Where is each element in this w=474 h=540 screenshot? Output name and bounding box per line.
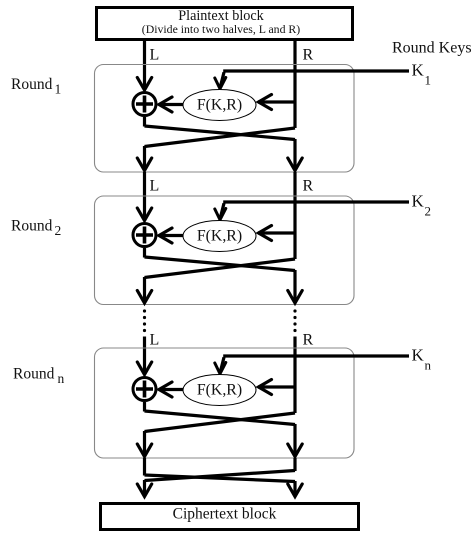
- wire R to F round 2: [258, 226, 295, 241]
- wire right output arrow round n: [288, 424, 302, 457]
- wire F to XOR round n: [159, 382, 183, 397]
- svg-text:1: 1: [55, 82, 62, 97]
- svg-text:F(K,R): F(K,R): [197, 382, 242, 399]
- svg-text:F(K,R): F(K,R): [197, 228, 242, 245]
- node L (top): [150, 47, 160, 64]
- svg-text:1: 1: [425, 73, 432, 88]
- svg-text:R: R: [303, 47, 314, 64]
- svg-text:K: K: [412, 192, 425, 211]
- node R (between round1,2): [303, 178, 314, 195]
- wire final swap left vertical: [143, 458, 146, 476]
- svg-text:n: n: [425, 358, 432, 373]
- svg-text:K: K: [412, 346, 425, 365]
- wire swap diagonal right-to-left round 2: [145, 259, 296, 278]
- wire swap diagonal left-to-right round n: [145, 411, 296, 425]
- svg-text:F(K,R): F(K,R): [197, 97, 242, 114]
- wire L round1 to round2 XOR: [137, 172, 151, 221]
- key K2 label: [412, 192, 432, 219]
- wire K1: key into F: [215, 71, 409, 89]
- wire L: plaintext to round1 XOR: [137, 41, 151, 90]
- svg-text:2: 2: [425, 204, 432, 219]
- xor round n: [133, 378, 156, 401]
- wire L into round n XOR: [137, 337, 151, 375]
- wire R into round n: [293, 337, 296, 414]
- round 1 box: [95, 65, 355, 173]
- label Round 2: [11, 218, 61, 239]
- op F(K,R) round n: [183, 375, 256, 406]
- wire final swap right-to-left diagonal: [145, 471, 296, 481]
- node L (between round1,2): [150, 178, 160, 195]
- wire R: plaintext down right column round1: [293, 41, 296, 128]
- wire swap diagonal left-to-right round 1: [145, 126, 296, 140]
- svg-text:n: n: [58, 371, 65, 386]
- wire Kn: key into F: [215, 356, 409, 374]
- op F(K,R) round 1: [183, 90, 256, 121]
- wire right output arrow round 2: [288, 270, 302, 303]
- plaintext box: [97, 8, 353, 40]
- wire F to XOR round 1: [159, 97, 183, 112]
- svg-text:R: R: [303, 332, 314, 349]
- key Kn label: [412, 346, 432, 373]
- wire R to F round 1: [258, 95, 295, 110]
- node R (above round n): [303, 332, 314, 349]
- round 2 box: [95, 196, 355, 305]
- wire swap diagonal right-to-left round 1: [145, 128, 296, 147]
- ciphertext box: [101, 504, 359, 530]
- svg-text:(Divide into two halves, L and: (Divide into two halves, L and R): [142, 22, 301, 36]
- wire left output arrow round 2: [137, 277, 151, 303]
- wire XOR output down round 1: [143, 117, 146, 127]
- svg-text:Round: Round: [13, 366, 55, 383]
- svg-text:Round Keys: Round Keys: [392, 40, 472, 57]
- wire left output arrow round n: [137, 431, 151, 457]
- wire R round1 to round2: [293, 172, 296, 259]
- wire swap diagonal left-to-right round 2: [145, 257, 296, 271]
- node R (top): [303, 47, 314, 64]
- wire R to F round n: [258, 380, 295, 395]
- key K1 label: [412, 61, 432, 88]
- wire final swap right vertical: [293, 458, 296, 471]
- svg-text:K: K: [412, 61, 425, 80]
- node L (above round n): [150, 332, 160, 349]
- wire K2: key into F: [215, 202, 409, 220]
- svg-text:Round: Round: [11, 218, 53, 235]
- xor round 2: [133, 224, 156, 247]
- dotted continuation left column: [143, 309, 146, 332]
- dotted continuation right column: [293, 309, 296, 332]
- op F(K,R) round 2: [183, 221, 256, 252]
- wire XOR output down round 2: [143, 248, 146, 258]
- svg-text:Ciphertext block: Ciphertext block: [173, 506, 277, 523]
- svg-text:R: R: [303, 178, 314, 195]
- label Round 1: [11, 76, 61, 97]
- wire swap diagonal right-to-left round n: [145, 413, 296, 432]
- wire final right arrow into ciphertext: [288, 481, 302, 497]
- wire final left arrow into ciphertext: [137, 480, 151, 497]
- wire right output arrow round 1: [288, 139, 302, 171]
- xor round 1: [133, 93, 156, 116]
- wire final swap left-to-right diagonal: [145, 475, 296, 482]
- svg-text:2: 2: [55, 223, 62, 238]
- wire left output arrow round 1: [137, 146, 151, 171]
- wire F to XOR round 2: [159, 228, 183, 243]
- svg-text:L: L: [150, 332, 160, 349]
- wire XOR output down round n: [143, 402, 146, 412]
- round n box: [95, 348, 355, 458]
- svg-text:Round: Round: [11, 76, 53, 93]
- label Round Keys: [392, 40, 472, 57]
- svg-text:L: L: [150, 178, 160, 195]
- svg-text:L: L: [150, 47, 160, 64]
- label Round n: [13, 366, 65, 387]
